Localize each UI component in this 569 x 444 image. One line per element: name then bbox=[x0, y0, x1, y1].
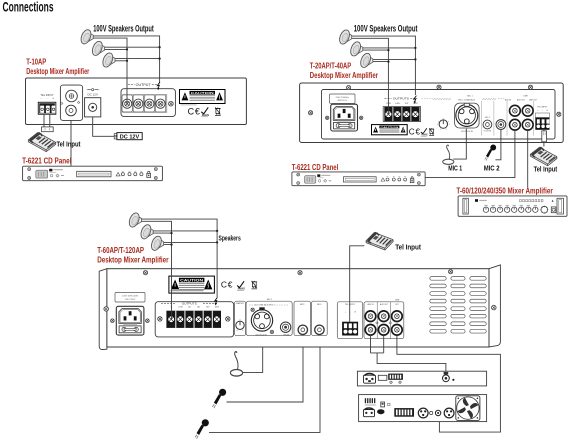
amplifier T-60AP/T-120AP rear panel bbox=[99, 269, 107, 350]
T-10AP AUX IN jacks bbox=[60, 84, 82, 121]
svg-text:220V 50Hz 40W: 220V 50Hz 40W bbox=[122, 296, 139, 298]
svg-text:Tel Input: Tel Input bbox=[534, 164, 558, 173]
svg-text:OUTPUTS: OUTPUTS bbox=[182, 302, 197, 306]
wire DC jack to DC 12V supply bbox=[93, 117, 115, 136]
T-6221 CD Panel (left) bbox=[23, 166, 163, 181]
amplifier T-20AP/T-40AP rear panel bbox=[300, 83, 564, 143]
speaker wires to T-10AP output bbox=[93, 36, 160, 104]
svg-text:100V: 100V bbox=[215, 306, 220, 308]
svg-text:AUX IN: AUX IN bbox=[368, 303, 375, 306]
panel screws (amp3) bbox=[143, 271, 147, 275]
OUTPUT terminals (amp2) bbox=[385, 97, 392, 99]
svg-text:T-6221 CD Panel: T-6221 CD Panel bbox=[292, 163, 339, 172]
lightning bolt at 100V terminal (amp1) bbox=[157, 82, 160, 89]
svg-text:TEL INPUT: TEL INPUT bbox=[537, 106, 548, 108]
lightning bolt at 100V terminal (amp3) bbox=[215, 297, 218, 304]
MASTER knob (amp3) bbox=[235, 301, 246, 336]
svg-text:100V: 100V bbox=[413, 103, 418, 105]
svg-text:Desktop Mixer Amplifier: Desktop Mixer Amplifier bbox=[97, 255, 168, 264]
wire handheld mic B to MIC3 (amp3) bbox=[209, 347, 320, 432]
svg-text:C€: C€ bbox=[409, 128, 421, 137]
svg-text:MASTER: MASTER bbox=[236, 302, 244, 305]
svg-text:DC 12V: DC 12V bbox=[120, 134, 140, 140]
svg-text:Speakers: Speakers bbox=[219, 235, 241, 242]
handheld microphone B (amp3) bbox=[195, 419, 209, 438]
svg-text:MIC3: MIC3 bbox=[317, 304, 321, 306]
svg-text:AUX IN: AUX IN bbox=[505, 98, 512, 101]
svg-text:PLUG IN: PLUG IN bbox=[484, 131, 492, 133]
svg-text:G: G bbox=[354, 311, 356, 313]
wire LINE OUT (amp2) down to mixer amplifier bbox=[527, 130, 529, 187]
speaker wires to T-60AP output bbox=[141, 219, 217, 319]
wire desk microphone to MIC1 (amp3) bbox=[243, 347, 263, 372]
svg-text:RoHS: RoHS bbox=[238, 287, 245, 291]
svg-text:Tel Input: Tel Input bbox=[57, 140, 81, 149]
speakers (amp1) bbox=[79, 28, 93, 45]
svg-text:CAUTION: CAUTION bbox=[191, 91, 214, 95]
lightning bolt at 100V terminal (amp2) bbox=[414, 96, 417, 103]
svg-text:4-8Ω: 4-8Ω bbox=[395, 103, 400, 105]
caution label (amp3) bbox=[169, 276, 215, 293]
svg-text:220V 50/60Hz: 220V 50/60Hz bbox=[336, 97, 349, 99]
wire TEL INPUT (amp2) to telephone bbox=[543, 130, 545, 147]
speaker wires to T-20AP/T-40AP output bbox=[351, 36, 415, 114]
handheld microphone MIC 2 bbox=[485, 145, 496, 161]
svg-text:CH1 PLUG IN: CH1 PLUG IN bbox=[255, 334, 267, 336]
DC 12V supply box bbox=[114, 134, 117, 136]
svg-text:100V Speakers Output: 100V Speakers Output bbox=[354, 24, 418, 34]
svg-text:LINE OUT: LINE OUT bbox=[529, 99, 538, 101]
handheld microphone A (amp3) bbox=[212, 389, 226, 408]
svg-text:G: G bbox=[52, 98, 54, 100]
MIC 2 / MIC 3 jacks (amp3) bbox=[294, 301, 311, 336]
AUX jack (amp2) bbox=[496, 120, 506, 130]
svg-text:MIC 1 COMB JACK: MIC 1 COMB JACK bbox=[458, 98, 475, 101]
svg-text:DC 12V: DC 12V bbox=[87, 93, 98, 97]
panel screws (amp2) bbox=[347, 86, 351, 90]
caution label (amp2) bbox=[372, 125, 408, 135]
ventilation grille (amp3) bbox=[430, 277, 446, 281]
AC power inlet (amp2) bbox=[331, 104, 358, 131]
svg-text:Connections: Connections bbox=[3, 0, 54, 14]
amplifier T-10AP rear panel bbox=[26, 78, 247, 125]
speakers (amp3) bbox=[127, 211, 141, 228]
OUTPUTS terminal strip (amp3) bbox=[155, 302, 234, 337]
svg-text:MIC 1: MIC 1 bbox=[467, 95, 473, 97]
svg-text:TEL INPUT: TEL INPUT bbox=[345, 304, 356, 306]
svg-text:AUX OUT: AUX OUT bbox=[380, 303, 389, 306]
wire telephone to TEL INPUT (amp3) bbox=[350, 246, 365, 322]
svg-text:LINE: LINE bbox=[523, 95, 528, 97]
svg-text:COM: COM bbox=[178, 306, 183, 308]
svg-text:100V Speakers Output: 100V Speakers Output bbox=[93, 24, 154, 34]
svg-text:RoHS: RoHS bbox=[202, 113, 209, 117]
svg-text:40W 115V: 40W 115V bbox=[337, 100, 347, 102]
svg-text:OUTPUTS: OUTPUTS bbox=[393, 97, 409, 101]
telephone Tel Input (amp2) bbox=[530, 147, 557, 166]
T-10AP caution label bbox=[180, 90, 226, 104]
svg-text:CAUTION: CAUTION bbox=[180, 278, 204, 282]
svg-text:TEL INPUT: TEL INPUT bbox=[40, 93, 54, 97]
svg-text:LINE: LINE bbox=[395, 300, 400, 302]
svg-text:AUX OUT: AUX OUT bbox=[517, 98, 526, 101]
remote paging console panel bbox=[357, 371, 486, 386]
svg-text:T-60/120/240/350 Mixer Amplifi: T-60/120/240/350 Mixer Amplifier bbox=[456, 187, 552, 196]
svg-text:XLR COMB JACK INPUT: XLR COMB JACK INPUT bbox=[254, 304, 273, 307]
svg-text:CH1 PLUG IN: CH1 PLUG IN bbox=[461, 131, 474, 133]
telephone Tel Input (amp1) bbox=[28, 133, 55, 152]
svg-text:MIC 2: MIC 2 bbox=[484, 166, 500, 173]
T-60/120/240/350 mixer amplifier front panel bbox=[458, 196, 567, 216]
telephone Tel Input (amp3) bbox=[365, 230, 394, 252]
T-10AP OUTPUT terminal strip bbox=[121, 83, 175, 117]
svg-text:Desktop Mixer Amplifier: Desktop Mixer Amplifier bbox=[310, 71, 378, 80]
svg-text:T-6221 CD Panel: T-6221 CD Panel bbox=[22, 157, 71, 166]
level knob (amp2) bbox=[439, 120, 447, 128]
slave power amplifier panel bbox=[359, 395, 487, 422]
svg-text:MIC 1: MIC 1 bbox=[448, 166, 462, 173]
wire LINE OUT (amp3) to slave amplifier bbox=[397, 335, 501, 432]
svg-text:115V 250V: 115V 250V bbox=[125, 299, 136, 301]
wire handheld mic A to MIC2 (amp3) bbox=[227, 347, 304, 402]
svg-text:OUTPUT: OUTPUT bbox=[136, 83, 151, 87]
speakers (amp2) bbox=[338, 28, 352, 45]
AUX/LINE RCA jacks (amp3) bbox=[364, 302, 404, 339]
wire AUX IN (amp2) to CD panel 2 bbox=[425, 130, 515, 177]
svg-text:T-60AP/T-120AP: T-60AP/T-120AP bbox=[97, 246, 144, 255]
T-6221 CD Panel (middle) bbox=[292, 172, 425, 186]
desk microphone (amp3) bbox=[230, 352, 242, 376]
svg-text:C€: C€ bbox=[221, 280, 233, 290]
wire AUX IN to CD panel (amp1) bbox=[70, 120, 72, 166]
svg-text:T-10AP: T-10AP bbox=[26, 58, 46, 67]
AC rating label (amp3) bbox=[115, 293, 145, 303]
T-10AP TEL INPUT terminal block bbox=[38, 93, 57, 115]
svg-text:PHONE: PHONE bbox=[283, 334, 290, 336]
svg-text:CAUTION: CAUTION bbox=[380, 126, 399, 129]
desk microphone MIC 1 bbox=[443, 145, 454, 164]
wire AUX IN/OUT (amp3) to remote paging box bbox=[371, 335, 446, 372]
T-10AP DC 12V jack bbox=[85, 89, 101, 117]
TEL INPUT terminal (amp3) bbox=[337, 302, 362, 339]
svg-text:MIC2: MIC2 bbox=[300, 304, 304, 306]
svg-text:T-20AP/T-40AP: T-20AP/T-40AP bbox=[310, 61, 352, 70]
svg-text:Tel Input: Tel Input bbox=[395, 242, 421, 251]
svg-text:MIC 2: MIC 2 bbox=[485, 117, 490, 119]
wire TEL block to telephone (amp1) bbox=[44, 115, 50, 127]
AC power inlet (amp3) bbox=[116, 306, 144, 335]
AC rating label (amp2) bbox=[329, 94, 355, 103]
svg-text:Desktop Mixer Amplifier: Desktop Mixer Amplifier bbox=[26, 67, 89, 76]
wire MIC1 jack to desk microphone (amp2) bbox=[453, 129, 466, 160]
wire MIC2 jack to handheld microphone (amp2) bbox=[495, 130, 501, 160]
PHONE jack (amp3) bbox=[280, 322, 290, 332]
svg-text:C€: C€ bbox=[188, 106, 201, 116]
